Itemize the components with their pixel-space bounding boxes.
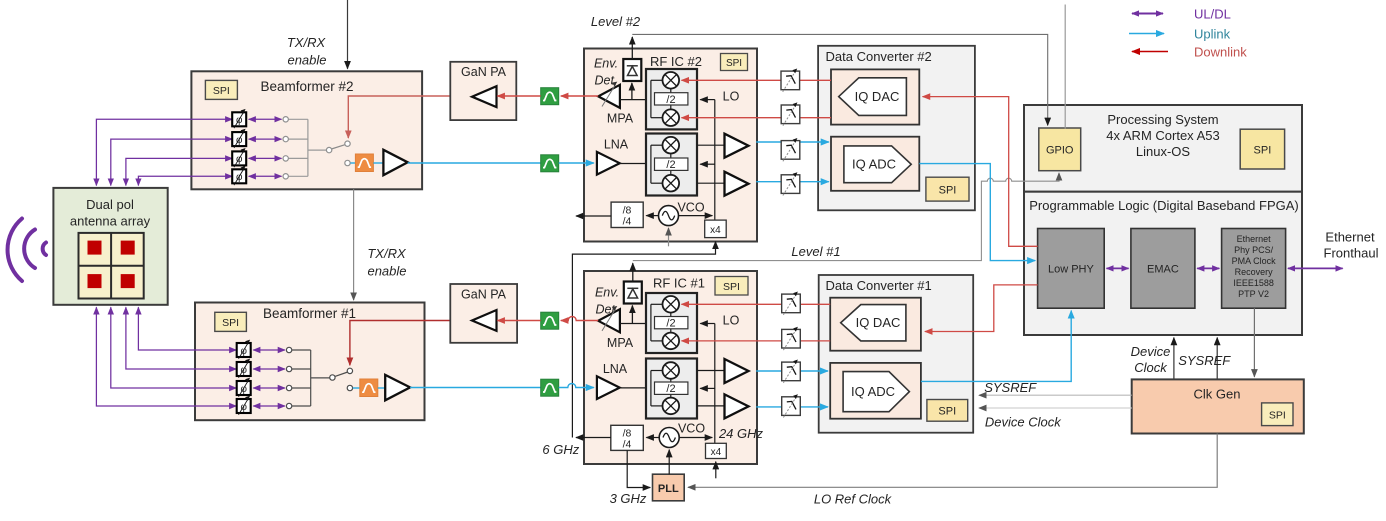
svg-text:Ethernet: Ethernet (1237, 234, 1272, 244)
cyan RX line BF1 switch to filter (353, 387, 361, 389)
LO distribution line level1 (714, 324, 716, 444)
TX mixer I level2 (663, 72, 680, 89)
IQ ADC pentagon level1 (843, 372, 909, 412)
wire phase shifter to switch BF1 ch1 (253, 349, 285, 351)
TX/RX enable label mid (367, 246, 407, 279)
svg-text:4x ARM Cortex A53: 4x ARM Cortex A53 (1106, 128, 1219, 143)
svg-text:Dual pol: Dual pol (86, 197, 134, 212)
svg-text:Device: Device (1131, 344, 1171, 359)
divider /2 RX level2 (655, 158, 688, 171)
divider /2 TX level2 (655, 93, 688, 106)
SPI box data converter #1 (927, 400, 968, 422)
svg-text:SPI: SPI (1269, 410, 1286, 422)
data converter #2 box (818, 46, 975, 211)
tap MPA line to env det level1 (631, 306, 633, 324)
env det to Level2 line (631, 37, 633, 59)
LO distribution line level2 (714, 100, 716, 221)
svg-text:Device Clock: Device Clock (985, 415, 1062, 430)
Env. Det. label level2 (594, 57, 618, 88)
svg-text:PTP V2: PTP V2 (1238, 289, 1269, 299)
wire phase shifter to switch BF1 ch4 (253, 405, 285, 407)
SYSREF line Clk Gen to data converter #1 (979, 394, 1132, 396)
Device Clock line Clk Gen to data converter #1 (979, 407, 1132, 409)
SPI box RF IC #1 (715, 277, 748, 296)
phase shifter BF1 ch4 (237, 396, 251, 415)
legend UL/DL arrow (1132, 6, 1231, 21)
wire antenna to BF2 ch2 (111, 139, 233, 185)
svg-text:IQ DAC: IQ DAC (856, 315, 901, 330)
wire antenna to BF2 ch4 (138, 176, 232, 185)
attenuator ADC Q level1 (782, 394, 801, 417)
red MPA to filter level1 (hop over 6GHz line) (561, 317, 598, 321)
wire RX mixer Q to amp level2 (697, 182, 725, 184)
BF1 combiner bus (292, 350, 330, 406)
svg-text:Low PHY: Low PHY (1048, 264, 1095, 276)
svg-text:IQ ADC: IQ ADC (852, 157, 896, 172)
legend Uplink arrow (1129, 26, 1231, 41)
svg-text:Uplink: Uplink (1194, 26, 1231, 41)
svg-text:x4: x4 (711, 447, 722, 458)
LO feed arrow RX /2 level1 (700, 387, 715, 389)
GPIO box (1039, 128, 1081, 171)
red DAC I line to TX mixer level1 (682, 303, 831, 305)
TX/RX enable label top (287, 35, 327, 68)
svg-text:MPA: MPA (607, 336, 634, 350)
svg-text:24 GHz: 24 GHz (718, 426, 764, 441)
wire phase shifter to switch BF1 ch2 (253, 368, 285, 370)
legend Downlink arrow (1132, 44, 1247, 59)
svg-text:LO: LO (723, 314, 740, 328)
UL/DL arrow EMAC to Ethernet PHY (1197, 267, 1219, 269)
svg-text:SPI: SPI (1254, 145, 1272, 157)
svg-text:TX/RX: TX/RX (287, 35, 327, 50)
svg-text:IQ DAC: IQ DAC (855, 89, 900, 104)
svg-text:Clock: Clock (1134, 360, 1168, 375)
RF IC #2 box (584, 49, 757, 242)
wire phase shifter to switch ch4 (249, 175, 282, 177)
x4 input stub level1 (715, 462, 717, 479)
RX output amp Q level2 (725, 172, 749, 196)
wire antenna to BF1 ch1 (138, 307, 236, 350)
SPI box RF IC #2 (721, 54, 748, 71)
UL/DL arrow Ethernet PHY to fronthaul (1288, 267, 1343, 269)
RX mixer I level1 (663, 362, 680, 379)
divider /8 /4 level2 (611, 202, 643, 227)
divider /2 RX level1 (655, 382, 688, 395)
svg-text:Recovery: Recovery (1235, 267, 1274, 277)
IQ DAC pentagon level2 (839, 78, 907, 116)
wire LNA to RX mixers level2 (620, 163, 651, 165)
red downlink Low PHY to IQ DAC level2 (923, 97, 1038, 247)
svg-text:SPI: SPI (222, 317, 239, 329)
GaN PA box level1 (450, 284, 517, 343)
svg-text:Linux-OS: Linux-OS (1136, 144, 1191, 159)
cyan uplink IQ ADC level2 to Low PHY (919, 164, 1035, 261)
wire PLL to VCO level1 (668, 450, 670, 475)
red filter to GaN PA level2 (497, 95, 540, 97)
bandpass filter (green) TX level2 (541, 88, 559, 105)
cyan amp I to ADC level2 (756, 141, 829, 143)
attenuator DAC Q level1 (782, 327, 801, 350)
BF2 switch (326, 141, 350, 166)
phase shifter BF2 ch1 (232, 109, 246, 128)
svg-text:MPA: MPA (607, 112, 634, 126)
wire RX mixer I to amp level1 (697, 370, 725, 372)
wire phase shifter to switch ch2 (249, 138, 282, 140)
cyan filter to LNA level2 (559, 162, 594, 164)
TX mixer block level2 (646, 69, 697, 129)
svg-text:/2: /2 (666, 159, 675, 171)
wire filter to amp BF2 (373, 162, 384, 164)
programmable logic box (1024, 192, 1302, 335)
svg-text:/4: /4 (623, 439, 632, 451)
wire VCO to /8/4 level2 (646, 215, 658, 217)
svg-text:Downlink: Downlink (1194, 44, 1247, 59)
svg-text:Phy PCS/: Phy PCS/ (1234, 245, 1274, 255)
SPI box processing system (1240, 129, 1284, 169)
processing system box (1024, 105, 1302, 192)
cyan uplink BF2 to green filter (408, 162, 541, 164)
red MPA to filter level2 (561, 95, 598, 97)
RX mixer block level1 (646, 359, 697, 419)
svg-text:Programmable Logic (Digital Ba: Programmable Logic (Digital Baseband FPG… (1029, 198, 1299, 213)
wire RX mixer Q to amp level1 (697, 405, 725, 407)
svg-text:PLL: PLL (658, 483, 679, 495)
attenuator ADC Q level2 (781, 172, 800, 195)
svg-text:Beamformer #1: Beamformer #1 (263, 306, 356, 321)
cyan amp Q to ADC level1 (756, 406, 828, 408)
svg-text:GPIO: GPIO (1046, 145, 1074, 157)
svg-text:Level #2: Level #2 (591, 14, 641, 29)
svg-text:SYSREF: SYSREF (1178, 353, 1231, 368)
Device Clock arrow into PL (1173, 338, 1175, 380)
SPI box Clk Gen (1262, 403, 1293, 426)
TX mixer Q level2 (663, 109, 680, 126)
svg-text:LNA: LNA (604, 138, 629, 152)
svg-text:RF IC #1: RF IC #1 (653, 276, 705, 291)
svg-text:UL/DL: UL/DL (1194, 6, 1231, 21)
beamformer #1 box (195, 303, 425, 421)
VCO level1 (659, 428, 679, 448)
BF2 combiner bus (288, 119, 326, 176)
x4 multiplier level1 (706, 443, 727, 458)
TX mixer block level1 (646, 293, 697, 353)
Level #2 wire to GPIO (632, 34, 1047, 125)
svg-text:/2: /2 (666, 383, 675, 395)
6 GHz output arrow level1 (576, 437, 611, 439)
svg-text:SPI: SPI (726, 58, 742, 69)
IQ ADC container level1 (830, 363, 921, 419)
VCO input stub level2 (668, 228, 670, 246)
red DAC Q line to TX mixer level2 (682, 117, 832, 119)
svg-text:GaN PA: GaN PA (461, 288, 507, 302)
svg-text:Env.: Env. (595, 286, 619, 300)
x4 multiplier level2 (705, 220, 727, 238)
svg-text:/2: /2 (666, 94, 675, 106)
svg-text:antenna array: antenna array (70, 214, 151, 229)
svg-text:PMA Clock: PMA Clock (1232, 256, 1277, 266)
svg-text:EMAC: EMAC (1147, 264, 1179, 276)
env det to Level1 line (632, 263, 634, 281)
phase shifter BF2 ch3 (232, 148, 246, 167)
3 GHz wire /8/4 to PLL (627, 450, 650, 487)
BF1 switch (330, 368, 353, 391)
6 GHz wire from RFIC1 divider to x4 level2 (572, 242, 715, 438)
svg-text:SPI: SPI (939, 185, 957, 197)
tap MPA line to env det level2 (631, 83, 633, 100)
BF2 switch terminals (283, 117, 288, 179)
phase shifter BF1 ch3 (237, 378, 251, 397)
red TX feed into BF1 switch (350, 321, 450, 366)
red DAC I line to TX mixer level2 (682, 79, 832, 81)
wire VCO to LO line level2 (679, 215, 713, 217)
RX amplifier BF1 (385, 375, 410, 400)
TX/RX enable line into BF2 (347, 0, 349, 69)
RX output amp I level2 (725, 134, 749, 158)
IQ DAC container level1 (830, 298, 921, 351)
envelope detector level1 (624, 282, 642, 304)
Clk Gen box (1132, 379, 1304, 433)
TX/RX enable line into BF1 (353, 189, 355, 300)
RX mixer block level2 (646, 134, 697, 196)
wire phase shifter to switch ch1 (249, 118, 282, 120)
wire LNA to RX mixers level1 (620, 387, 651, 389)
wire phase shifter to switch BF1 ch3 (253, 387, 285, 389)
svg-text:Processing System: Processing System (1107, 112, 1218, 127)
phase shifter BF2 ch2 (232, 129, 246, 148)
divider /8 /4 level1 (611, 425, 644, 450)
svg-text:Beamformer #2: Beamformer #2 (260, 79, 353, 94)
svg-text:Level #1: Level #1 (791, 244, 840, 259)
IQ ADC pentagon level2 (844, 146, 911, 183)
svg-text:/2: /2 (666, 318, 675, 330)
RX mixer Q level1 (663, 398, 680, 415)
svg-text:SPI: SPI (213, 85, 230, 97)
attenuator ADC I level2 (781, 138, 800, 161)
LO feed arrow RX /2 level2 (700, 163, 715, 165)
LO feed arrow TX /2 level1 (700, 323, 715, 325)
IQ DAC container level2 (831, 69, 919, 124)
SPI box beamformer #2 (205, 80, 237, 99)
attenuator DAC Q level2 (781, 102, 800, 125)
TX mixer I level1 (663, 296, 680, 313)
bandpass filter (green) RX level2 (541, 155, 559, 172)
svg-text:x4: x4 (710, 225, 721, 236)
IQ ADC container level2 (831, 137, 919, 191)
svg-text:IQ ADC: IQ ADC (851, 384, 895, 399)
svg-text:Clk Gen: Clk Gen (1194, 387, 1241, 402)
wire antenna to BF2 ch3 (126, 158, 232, 185)
LO Ref Clock wire Clk Gen to PLL (688, 434, 1217, 488)
svg-text:Data Converter #2: Data Converter #2 (826, 49, 932, 64)
beamformer #2 box (191, 71, 422, 189)
svg-text:Data Converter #1: Data Converter #1 (826, 278, 932, 293)
wire Ethernet PHY to Clk Gen (1253, 308, 1255, 377)
envelope detector level2 (623, 59, 641, 81)
MPA amplifier level2 (598, 82, 634, 126)
red TX feed into BF2 switch (348, 96, 450, 138)
svg-text:LNA: LNA (603, 362, 628, 376)
red DAC Q line to TX mixer level1 (682, 340, 831, 342)
red filter to GaN PA level1 (497, 320, 540, 322)
bandpass filter (orange) BF1 (360, 379, 378, 397)
phase shifter BF1 ch1 (237, 340, 251, 359)
wire mixers to MPA level2 (620, 99, 651, 101)
6GHz dead-end arrow level2 (576, 215, 611, 217)
TX mixer Q level1 (663, 333, 680, 350)
svg-text:GaN PA: GaN PA (461, 65, 507, 79)
gray vertical line into GPIO top (1064, 5, 1066, 129)
Device Clock label (1131, 344, 1171, 375)
UL/DL arrow Low PHY to EMAC (1107, 267, 1129, 269)
PLL box (653, 474, 685, 501)
Ethernet PHY block (1222, 229, 1286, 309)
RX output amp I level1 (725, 359, 749, 383)
wire mixers to MPA level1 (620, 323, 651, 325)
cyan amp I to ADC level1 (756, 370, 828, 372)
bandpass filter (orange) BF2 (355, 154, 373, 172)
svg-text:SPI: SPI (938, 406, 956, 418)
svg-text:enable: enable (367, 264, 406, 279)
wire phase shifter to switch ch3 (249, 157, 282, 159)
divider /2 TX level1 (655, 317, 688, 330)
bandpass filter (green) TX level1 (541, 312, 559, 329)
BF1 switch terminals (286, 347, 291, 408)
phase shifter BF1 ch2 (237, 359, 251, 378)
GaN PA box level2 (450, 62, 516, 120)
wire antenna to BF1 ch3 (111, 307, 237, 388)
antenna 2x2 patch grid (79, 233, 144, 299)
RF IC #1 box (584, 271, 757, 464)
LO feed arrow TX /2 level2 (700, 99, 715, 101)
svg-text:/4: /4 (623, 216, 632, 228)
RX output amp Q level1 (725, 394, 749, 418)
attenuator ADC I level1 (782, 360, 801, 383)
svg-text:SYSREF: SYSREF (984, 380, 1037, 395)
SPI box beamformer #1 (215, 312, 247, 331)
wire RX mixer I to amp level2 (697, 144, 725, 146)
svg-text:LO Ref Clock: LO Ref Clock (814, 492, 893, 507)
svg-text:IEEE1588: IEEE1588 (1233, 278, 1274, 288)
Env. Det. label level1 (595, 286, 619, 317)
wire antenna to BF2 ch1 (96, 119, 232, 185)
EMAC block (1131, 229, 1195, 309)
svg-text:LO: LO (723, 90, 740, 104)
wire filter to amp BF1 (378, 387, 386, 389)
cyan uplink BF1 to green filter (410, 387, 541, 389)
VCO level2 (659, 206, 679, 226)
svg-text:Ethernet: Ethernet (1325, 230, 1375, 245)
svg-text:Env.: Env. (594, 57, 618, 71)
IQ DAC pentagon level1 (841, 305, 906, 341)
svg-text:enable: enable (287, 53, 326, 68)
attenuator DAC I level1 (782, 292, 801, 315)
svg-text:VCO: VCO (678, 422, 705, 436)
data converter #1 box (819, 275, 974, 433)
SPI box data converter #2 (926, 177, 969, 201)
LNA amplifier level2 (597, 152, 620, 175)
wire VCO to /8/4 level1 (646, 437, 659, 439)
svg-text:SPI: SPI (723, 281, 740, 293)
wire antenna to BF1 ch4 (96, 307, 236, 406)
Ethernet Fronthaul label (1324, 230, 1379, 261)
antenna radiating arcs (8, 219, 46, 282)
Level #1 wire to GPIO (hops over cyan and red trunks) (633, 173, 1059, 261)
svg-text:TX/RX: TX/RX (367, 246, 407, 261)
cyan amp Q to ADC level2 (756, 181, 829, 183)
attenuator DAC I level2 (781, 69, 800, 92)
SYSREF arrow into PL (1216, 338, 1218, 380)
dual pol antenna array box (53, 188, 167, 305)
phase shifter BF2 ch4 (232, 166, 246, 185)
svg-text:6 GHz: 6 GHz (542, 442, 579, 457)
RX mixer Q level2 (663, 175, 680, 192)
svg-text:VCO: VCO (677, 201, 704, 215)
svg-text:Fronthaul: Fronthaul (1324, 246, 1379, 261)
cyan uplink IQ ADC level1 to Low PHY (921, 311, 1071, 382)
wire antenna to BF1 ch2 (126, 307, 236, 369)
svg-text:3 GHz: 3 GHz (610, 491, 647, 506)
wire VCO to LO line level1 (679, 437, 712, 439)
red downlink Low PHY to IQ DAC level1 (925, 285, 1038, 332)
MPA amplifier level1 (598, 306, 634, 350)
LNA amplifier level1 (597, 376, 620, 399)
RX amplifier BF2 (383, 150, 407, 175)
Low PHY block (1038, 229, 1105, 309)
bandpass filter (green) RX level1 (541, 379, 559, 396)
svg-text:RF IC #2: RF IC #2 (650, 54, 702, 69)
cyan RX line BF2 switch to filter (350, 162, 356, 164)
cyan filter to LNA level1 (hop over 6GHz line) (559, 384, 594, 388)
RX mixer I level2 (663, 137, 680, 154)
